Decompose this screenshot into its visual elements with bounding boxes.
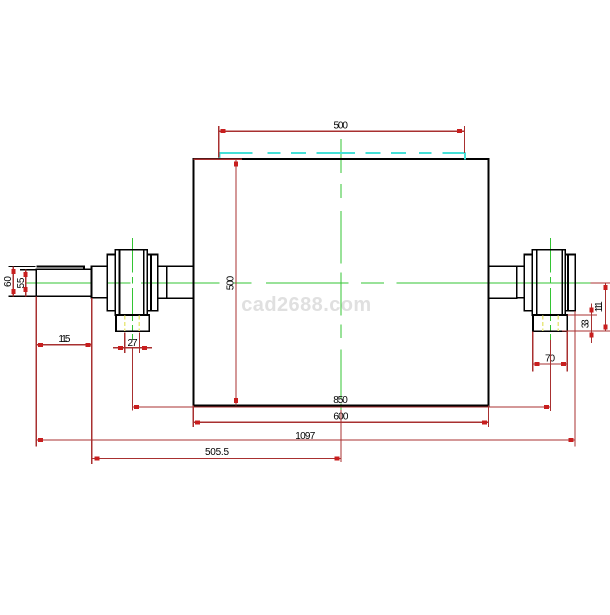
left shaft to drum <box>158 266 194 298</box>
dim 1097 <box>36 311 575 447</box>
dim 500 top <box>219 126 465 157</box>
cyan phantom line over drum <box>219 153 466 160</box>
dim 600 <box>193 405 488 427</box>
svg-text:111: 111 <box>594 301 605 312</box>
svg-text:1097: 1097 <box>295 431 315 442</box>
red overlap on drum top edge <box>193 158 242 160</box>
right bearing inner line b <box>561 250 563 315</box>
left bearing flange right <box>147 255 157 311</box>
left bearing inner line a <box>119 250 121 315</box>
dim 850 <box>132 340 550 411</box>
right shaft step section <box>517 266 525 298</box>
svg-text:500: 500 <box>225 275 236 290</box>
svg-text:55: 55 <box>16 277 27 288</box>
dim 60 line <box>12 266 14 296</box>
dim 33 right <box>562 303 610 342</box>
dim 60 left extension lines <box>8 266 36 296</box>
svg-text:cad2688.com: cad2688.com <box>241 294 371 316</box>
right bearing flange left <box>524 255 532 311</box>
left foot bolt hole hidden lines <box>124 316 126 331</box>
centerline horizontal (shaft axis) <box>25 282 591 284</box>
dim 111 right <box>590 283 610 331</box>
drum body <box>193 159 488 405</box>
right bearing foot <box>533 315 567 331</box>
left bearing flange left <box>107 255 115 311</box>
left bearing block <box>115 250 147 315</box>
dim 70 right <box>533 332 568 372</box>
left bearing flange right inner line <box>150 255 152 311</box>
left shaft key protrusion <box>36 266 84 269</box>
left end shaft <box>36 269 91 296</box>
svg-text:850: 850 <box>333 395 348 406</box>
dim 500 vertical <box>235 159 237 405</box>
centerline left bearing vertical <box>131 238 133 340</box>
centerline right bearing vertical <box>550 238 552 340</box>
svg-text:33: 33 <box>581 319 592 328</box>
svg-text:27: 27 <box>128 338 138 349</box>
right shaft from drum <box>489 266 517 298</box>
svg-text:505.5: 505.5 <box>205 447 229 458</box>
right foot bolt hole hidden lines <box>542 316 544 331</box>
dim 505.5 <box>92 410 341 462</box>
left shaft step section <box>92 266 108 298</box>
right bearing inner line a <box>536 250 538 315</box>
left shaft step line <box>166 266 168 298</box>
svg-text:60: 60 <box>3 276 14 287</box>
right bearing block <box>532 250 565 315</box>
right bearing flange right <box>565 255 575 311</box>
centerline drum vertical <box>340 139 342 410</box>
dim 115 <box>36 296 92 464</box>
dim 55 line <box>25 270 27 297</box>
right bearing flange right inner line <box>567 255 569 311</box>
svg-text:115: 115 <box>58 334 70 345</box>
left bearing inner line b <box>143 250 145 315</box>
left bearing foot <box>116 315 149 331</box>
dim 27 <box>113 333 152 411</box>
svg-text:500: 500 <box>333 120 348 131</box>
